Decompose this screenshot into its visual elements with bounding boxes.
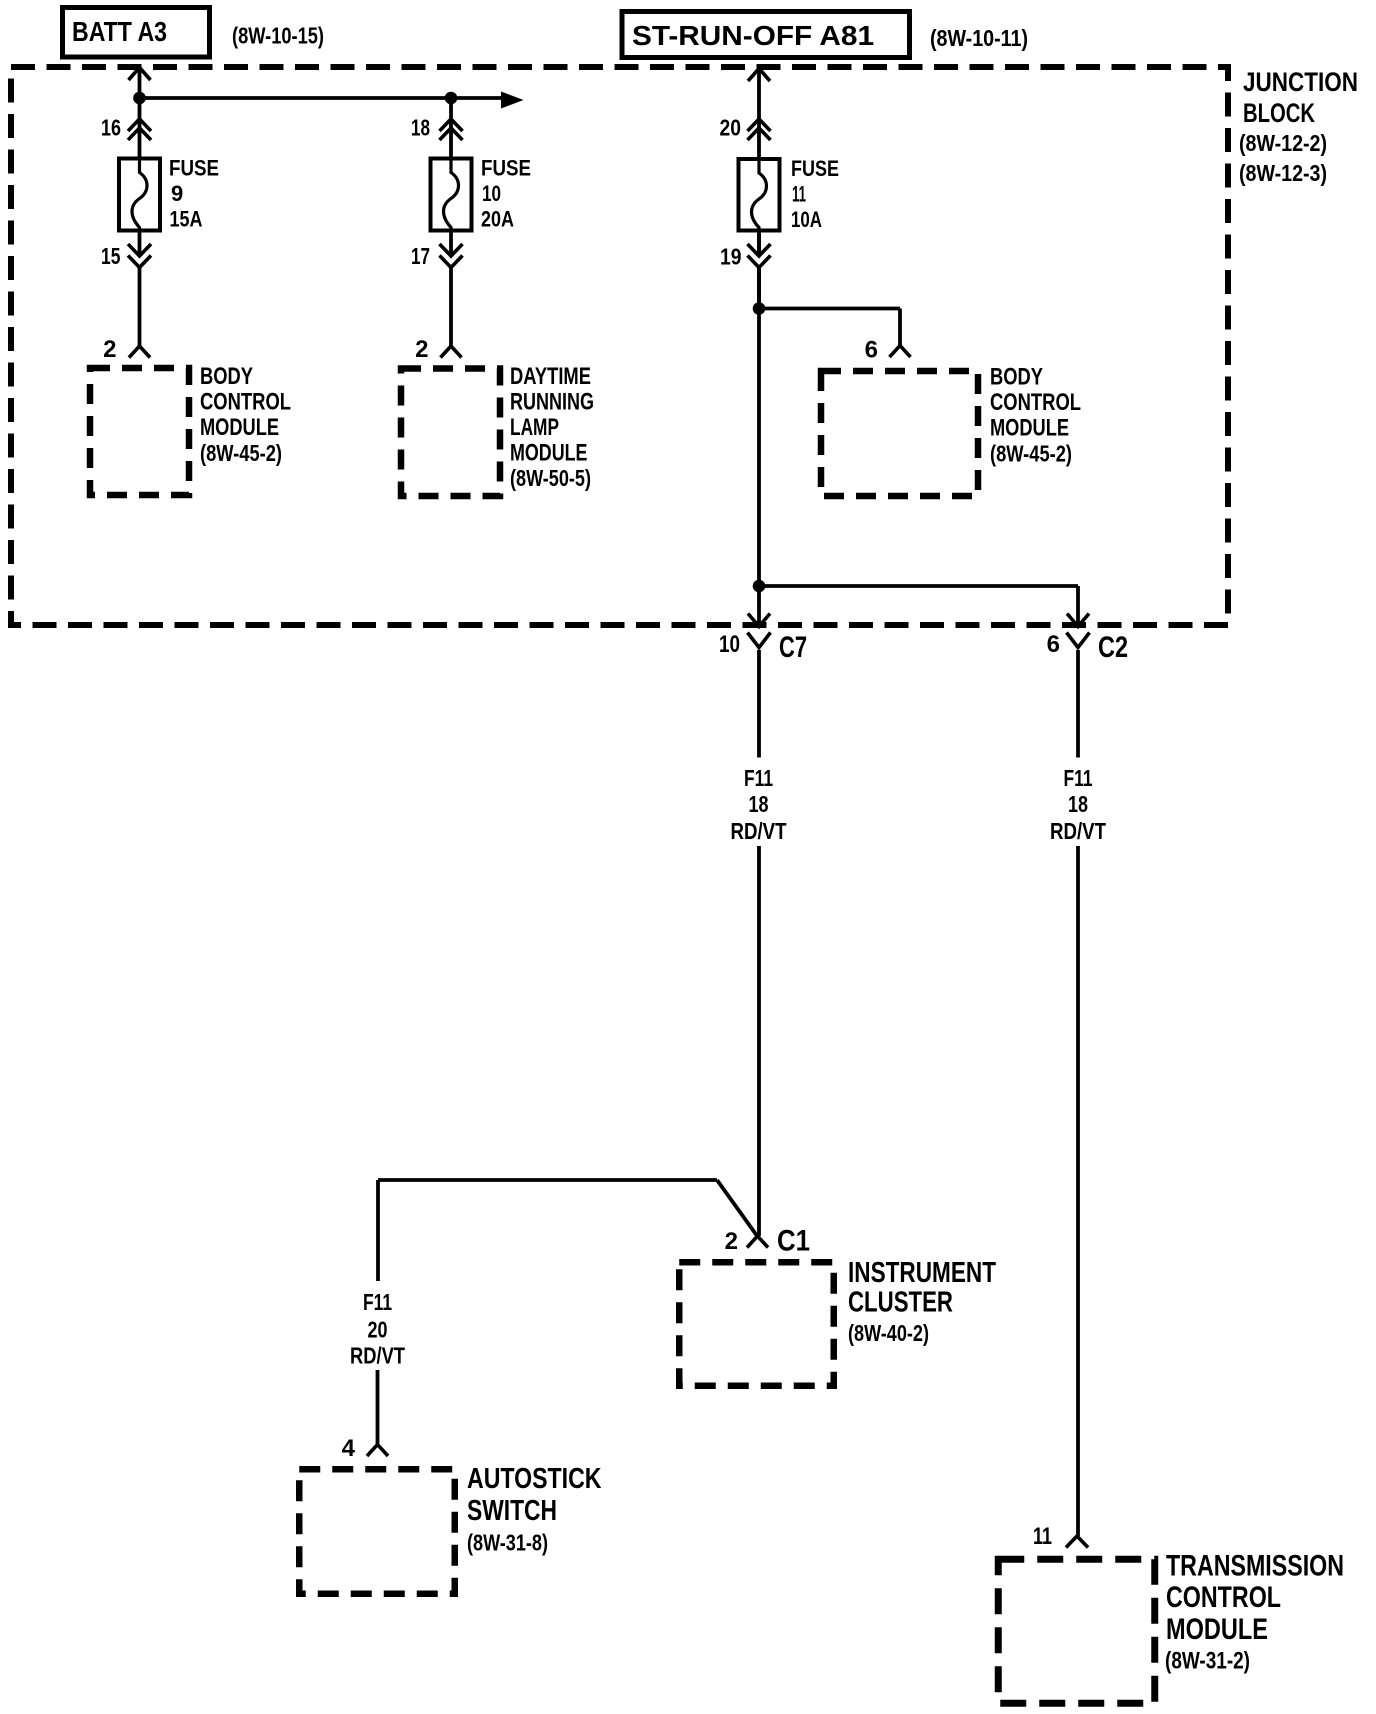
svg-text:AUTOSTICK: AUTOSTICK (467, 1463, 602, 1495)
svg-text:TRANSMISSION: TRANSMISSION (1166, 1550, 1344, 1583)
svg-text:17: 17 (411, 243, 430, 269)
svg-text:FUSE: FUSE (169, 156, 219, 181)
svg-text:CONTROL: CONTROL (200, 389, 291, 416)
svg-text:MODULE: MODULE (1166, 1613, 1268, 1646)
svg-text:6: 6 (865, 337, 878, 364)
svg-text:2: 2 (725, 1228, 738, 1255)
svg-text:BATT A3: BATT A3 (72, 16, 167, 47)
svg-text:F11: F11 (1064, 765, 1093, 791)
svg-text:C2: C2 (1098, 631, 1128, 664)
svg-text:BLOCK: BLOCK (1243, 98, 1315, 128)
svg-text:(8W-31-8): (8W-31-8) (467, 1530, 548, 1556)
svg-text:RD/VT: RD/VT (1050, 818, 1106, 844)
svg-text:C7: C7 (779, 631, 807, 664)
svg-text:SWITCH: SWITCH (467, 1495, 557, 1527)
svg-text:RUNNING: RUNNING (510, 389, 594, 416)
svg-text:FUSE: FUSE (481, 156, 531, 181)
svg-text:(8W-10-11): (8W-10-11) (930, 25, 1028, 51)
svg-text:6: 6 (1047, 631, 1060, 658)
svg-text:DAYTIME: DAYTIME (510, 363, 591, 390)
svg-text:MODULE: MODULE (200, 414, 279, 441)
svg-text:LAMP: LAMP (510, 414, 559, 441)
svg-text:(8W-31-2): (8W-31-2) (1165, 1648, 1250, 1675)
svg-text:11: 11 (1033, 1523, 1052, 1550)
svg-text:18: 18 (411, 115, 430, 141)
svg-text:(8W-10-15): (8W-10-15) (232, 23, 324, 49)
svg-text:MODULE: MODULE (990, 415, 1069, 442)
svg-text:CONTROL: CONTROL (1166, 1581, 1281, 1614)
svg-text:2: 2 (103, 336, 116, 363)
svg-text:RD/VT: RD/VT (350, 1343, 405, 1369)
svg-text:20: 20 (368, 1317, 388, 1343)
svg-text:(8W-45-2): (8W-45-2) (990, 441, 1072, 467)
svg-text:RD/VT: RD/VT (731, 818, 787, 844)
svg-text:20A: 20A (481, 207, 514, 232)
svg-text:INSTRUMENT: INSTRUMENT (848, 1257, 996, 1289)
svg-text:JUNCTION: JUNCTION (1243, 67, 1358, 97)
svg-text:20: 20 (720, 115, 742, 141)
svg-text:(8W-45-2): (8W-45-2) (200, 440, 282, 466)
svg-text:ST-RUN-OFF A81: ST-RUN-OFF A81 (632, 20, 874, 51)
svg-text:BODY: BODY (200, 363, 253, 390)
svg-text:18: 18 (749, 791, 769, 817)
svg-text:9: 9 (171, 181, 183, 206)
svg-text:16: 16 (101, 115, 121, 141)
svg-text:CLUSTER: CLUSTER (848, 1287, 953, 1319)
svg-text:4: 4 (342, 1435, 356, 1462)
svg-text:F11: F11 (744, 765, 773, 791)
svg-text:(8W-12-2): (8W-12-2) (1239, 130, 1327, 156)
svg-text:CONTROL: CONTROL (990, 389, 1081, 416)
svg-text:FUSE: FUSE (791, 156, 839, 181)
svg-text:10A: 10A (791, 207, 822, 232)
svg-text:19: 19 (720, 244, 742, 270)
svg-text:18: 18 (1068, 791, 1088, 817)
svg-text:15: 15 (101, 243, 121, 269)
svg-text:10: 10 (719, 631, 740, 658)
svg-text:10: 10 (482, 181, 501, 206)
svg-text:F11: F11 (363, 1289, 392, 1315)
svg-text:(8W-50-5): (8W-50-5) (510, 465, 591, 491)
svg-text:15A: 15A (170, 207, 203, 232)
svg-text:C1: C1 (777, 1225, 810, 1258)
svg-text:BODY: BODY (990, 364, 1043, 391)
svg-text:2: 2 (415, 336, 428, 363)
svg-text:(8W-12-3): (8W-12-3) (1239, 160, 1327, 186)
svg-text:(8W-40-2): (8W-40-2) (848, 1320, 929, 1346)
svg-text:MODULE: MODULE (510, 440, 588, 467)
svg-text:11: 11 (792, 182, 806, 207)
